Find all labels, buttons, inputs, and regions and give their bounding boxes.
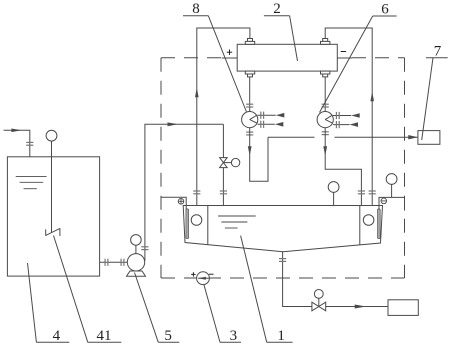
leader to pump 6 xyxy=(320,16,373,113)
unit 7 box xyxy=(418,131,440,145)
flow arrow down from pump 6 xyxy=(323,146,327,155)
flange on pump 5 discharge xyxy=(141,247,148,250)
pipe from catholyte riser to electrolyzer top-right port xyxy=(325,28,372,206)
header line to unit 7 (right segment crossing border) xyxy=(335,136,418,138)
label 7 xyxy=(426,43,448,59)
liquid level mark in tank 1 xyxy=(218,216,256,228)
pump 8 lower discharge stub xyxy=(258,123,275,125)
pump 6 body xyxy=(317,112,333,128)
pipe electrolyzer bottom-left to pump 8 xyxy=(249,77,251,112)
flange 1 on suction pipe xyxy=(105,259,108,266)
flange on left riser xyxy=(193,191,200,194)
leader to tank 1 xyxy=(241,236,267,343)
pipe electrolyzer bottom-right to pump 6 xyxy=(324,77,326,112)
electrolyzer cell 2 body xyxy=(237,44,337,71)
stirrer 41 motor xyxy=(46,130,57,141)
svg-text:6: 6 xyxy=(381,2,389,18)
plus terminal lead xyxy=(222,50,238,59)
flange on pump 8 lower stub xyxy=(261,121,264,128)
flow arrow down from pump 8 xyxy=(248,146,252,155)
leader to unit 7 xyxy=(422,58,433,140)
feed pipe from pump 5 over to control valve xyxy=(145,124,224,260)
pipe from anolyte riser to electrolyzer top-left port xyxy=(197,28,250,206)
receiver box xyxy=(388,300,418,316)
reservoir tank 4 xyxy=(7,157,99,276)
pump 6 upper discharge stub xyxy=(333,115,351,117)
cathode electrode plate xyxy=(378,209,381,239)
svg-text:2: 2 xyxy=(273,1,281,17)
DC source 3 xyxy=(191,272,213,285)
svg-text:5: 5 xyxy=(164,328,172,344)
drain outlet pipe to receiver xyxy=(326,306,388,308)
pump 5 body xyxy=(127,254,144,271)
flange on pump 6 upper stub xyxy=(336,112,339,119)
anode electrode plate xyxy=(186,209,189,239)
suction pipe tank 4 to pump 5 xyxy=(100,261,128,263)
pump 5 base xyxy=(127,271,146,276)
inlet flow arrow xyxy=(11,129,21,133)
svg-text:7: 7 xyxy=(434,43,442,59)
electrolysis tank 1 body xyxy=(183,206,382,252)
flow arrow up on left riser xyxy=(195,88,199,98)
label 8 xyxy=(183,1,208,17)
flange on inlet pipe xyxy=(26,142,33,145)
flange above pump 8 xyxy=(246,104,253,107)
header line to unit 7 (left segment) xyxy=(268,136,315,138)
liquid level mark in tank 4 xyxy=(16,176,47,188)
flange on pump 6 lower stub xyxy=(336,121,339,128)
electrolyzer stub bottom-right xyxy=(321,71,330,77)
flow arrow pump 6 lower stub xyxy=(350,122,359,127)
stirrer 41 paddle xyxy=(46,228,60,236)
leader to pump 8 xyxy=(208,16,246,112)
flow arrow on drain outlet xyxy=(355,305,367,309)
flow arrow up on right riser xyxy=(370,92,374,102)
cathode wire xyxy=(379,197,405,210)
svg-text:8: 8 xyxy=(192,1,200,17)
flange above pump 6 xyxy=(322,104,329,107)
flow arrow on feed pipe xyxy=(168,122,179,126)
label 6 xyxy=(373,2,397,18)
control valve drop pipe into tank xyxy=(222,124,224,205)
flange on pump 8 upper stub xyxy=(261,112,264,119)
electrolyzer stub bottom-left xyxy=(245,71,254,77)
inlet pipe to tank 4 xyxy=(4,130,30,157)
flange below pump 6 xyxy=(322,132,329,135)
flange on pump 6 return drop xyxy=(358,191,365,194)
tank 1 right partition xyxy=(359,206,361,245)
leader to stirrer 41 xyxy=(54,236,88,343)
svg-text:41: 41 xyxy=(97,328,112,344)
minus terminal lead xyxy=(337,52,352,59)
pump 6 downcomer returning to tank xyxy=(325,128,361,206)
drain valve xyxy=(312,302,326,311)
label 2 xyxy=(264,1,290,17)
minus electrode terminal symbol xyxy=(381,198,387,204)
svg-text:1: 1 xyxy=(277,328,285,344)
leader to pump 5 xyxy=(135,273,159,343)
flange on right riser xyxy=(369,191,376,194)
control valve body xyxy=(220,158,228,168)
stirrer 41 shaft xyxy=(51,141,53,232)
leader to DC source 3 xyxy=(204,285,220,342)
gauge on cathode wire xyxy=(386,174,397,198)
pump 6 lower discharge stub xyxy=(333,124,350,126)
drain valve handwheel xyxy=(314,290,323,307)
leader to electrolyzer 2 xyxy=(290,16,298,61)
dashed system boundary box xyxy=(161,58,405,278)
flange on valve drop pipe xyxy=(220,191,227,194)
pump 8 body xyxy=(242,112,258,128)
drain pipe from tank 1 xyxy=(283,252,313,307)
flange below pump 8 xyxy=(246,132,253,135)
label 4 xyxy=(36,328,69,344)
flow arrow into unit 7 xyxy=(408,135,418,139)
gauge on tank 1 xyxy=(328,182,339,206)
pump 5 gauge xyxy=(131,235,142,254)
label 1 xyxy=(267,328,293,344)
flow arrow pump 8 upper stub xyxy=(276,113,285,118)
plus electrode terminal symbol xyxy=(178,199,184,205)
tank 1 right chamber port xyxy=(363,215,374,226)
flange 2 on suction pipe xyxy=(121,259,124,266)
svg-text:3: 3 xyxy=(230,328,238,344)
valve actuator xyxy=(223,158,239,166)
anode wire xyxy=(161,197,186,209)
leader to tank 4 xyxy=(28,263,37,342)
pump 8 downcomer and U-return xyxy=(250,128,268,182)
tank 1 left chamber port xyxy=(191,215,202,226)
flow arrow pump 6 upper stub xyxy=(351,113,360,118)
svg-text:4: 4 xyxy=(53,328,61,344)
electrolyzer stub top-left xyxy=(245,39,254,45)
pump 8 upper discharge stub xyxy=(258,114,276,116)
label 5 xyxy=(158,328,179,344)
label 3 xyxy=(220,328,241,344)
flange on drain pipe xyxy=(279,259,286,262)
tank 1 left partition xyxy=(207,206,209,245)
flow arrow pump 8 lower stub xyxy=(275,122,284,127)
label 41 xyxy=(88,328,122,344)
electrolyzer stub top-right xyxy=(321,39,330,45)
